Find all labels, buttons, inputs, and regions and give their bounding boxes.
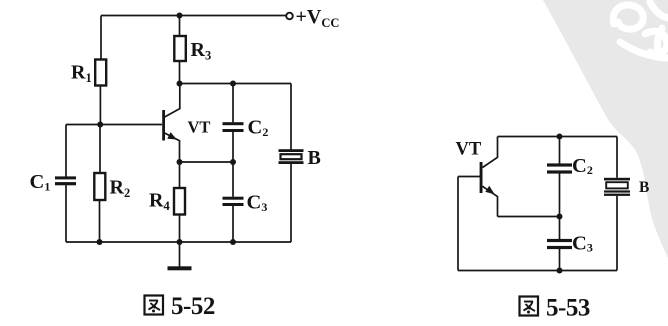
wire top rail (right) (498, 136, 618, 138)
node: bottom rail / R4 ground junction (177, 239, 183, 245)
caption figure 5-53 (520, 295, 590, 322)
wire C2 bottom lead (right) (559, 174, 561, 217)
wire emitter rail (180, 161, 234, 163)
transistor VT (left) emitter lead (165, 133, 180, 162)
wire crystal bottom lead (290, 164, 292, 242)
transistor VT (right) emitter arrow (485, 186, 494, 195)
caption figure 5-52 (145, 293, 215, 320)
node: bottom rail / R2 junction (97, 239, 103, 245)
svg-text:VT: VT (456, 139, 482, 159)
wire base lead (right) (458, 176, 480, 178)
wire R2 top lead (99, 125, 101, 174)
wire collector rail (180, 83, 292, 85)
capacitor C3 (right circuit) (547, 239, 572, 249)
svg-text:VT: VT (188, 118, 211, 137)
wire R3 bottom lead to collector node (179, 61, 181, 84)
wire crystal top lead (right) (616, 137, 618, 178)
node: emitter rail / C2 C3 junction (230, 159, 236, 165)
transistor VT (left) collector lead (165, 84, 180, 118)
wire C1 bottom lead (65, 185, 67, 242)
wire C3 top lead (left) (232, 162, 234, 197)
node: emitter / R4 junction (177, 159, 183, 165)
wire R4 bottom lead (179, 215, 181, 243)
node: collector rail / C2 junction (230, 81, 236, 87)
wire C3 top lead (right) (559, 217, 561, 240)
wire C3 bottom lead (left) (232, 206, 234, 242)
node: bottom rail / C3 junction (right) (557, 268, 563, 274)
wire ground lead (179, 242, 181, 267)
node: bottom rail / C3 junction (230, 239, 236, 245)
wire left feedback branch (457, 177, 459, 271)
capacitor C2 (left circuit) (223, 122, 244, 132)
wire C2 bottom lead (left) (232, 132, 234, 162)
resistor R3 (174, 36, 186, 61)
resistor R2 (94, 173, 105, 200)
svg-text:B: B (308, 147, 321, 169)
svg-text:B: B (639, 179, 649, 196)
transistor VT (right) collector lead (483, 137, 498, 168)
terminal +Vcc open circle (286, 13, 293, 20)
capacitor C3 (left circuit) (223, 197, 244, 206)
node: top rail / C2 junction (right) (557, 134, 563, 140)
wire R4 top lead (179, 162, 181, 188)
wire C2 top lead (left) (232, 84, 234, 123)
wire R1 bottom lead to base node (99, 86, 101, 125)
transistor VT (right) emitter lead (483, 186, 498, 216)
transistor VT (left) base bar (162, 110, 165, 141)
wire R3 top lead (179, 16, 181, 37)
node: top rail / R3 junction (177, 13, 183, 19)
svg-text:5-52: 5-52 (171, 293, 215, 320)
node: collector / R3 junction (177, 81, 183, 87)
wire base rail (66, 124, 162, 126)
wire C1 top lead (65, 125, 67, 177)
wire top rail Vcc (101, 15, 286, 17)
wire bottom rail (66, 241, 291, 243)
transistor VT (right) base bar (480, 162, 483, 193)
wire emitter rail (right) (498, 216, 560, 218)
capacitor C1 (55, 176, 76, 185)
node: base / R1 R2 junction (97, 122, 103, 128)
wire crystal bottom lead (right) (616, 196, 618, 271)
capacitor C2 (right circuit) (547, 163, 572, 173)
wire bottom rail (right) (458, 270, 617, 272)
ground (168, 266, 192, 270)
wire left branch upper (R1 top lead) (100, 16, 102, 60)
wire R2 bottom lead (99, 200, 101, 242)
node: emitter rail / C2 C3 junction (right) (557, 214, 563, 220)
wire C2 top lead (right) (559, 137, 561, 164)
wire crystal top lead (290, 84, 292, 151)
crystal B (right circuit) (604, 178, 630, 196)
crystal B (left circuit) (279, 149, 304, 164)
wire C3 bottom lead (right) (559, 249, 561, 271)
resistor R4 (174, 188, 185, 215)
transistor VT (left) emitter arrow (167, 132, 177, 140)
resistor R1 (95, 60, 106, 86)
svg-text:5-53: 5-53 (546, 295, 590, 322)
